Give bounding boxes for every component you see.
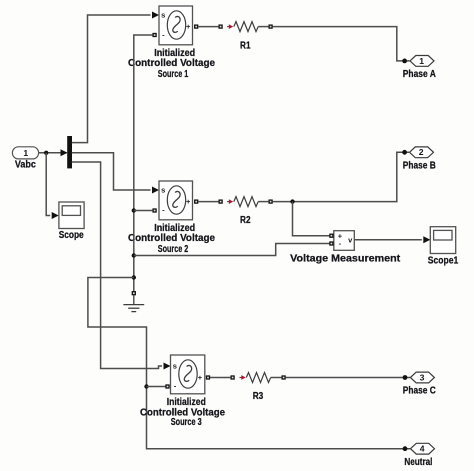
node at Phase C (403, 375, 408, 380)
svg-text:+: + (198, 373, 203, 382)
svg-text:Source 3: Source 3 (171, 417, 202, 428)
svg-text:R1: R1 (240, 40, 251, 51)
resistor R1 (219, 22, 272, 52)
wire minus bus: VS1 - down to ground (134, 35, 153, 291)
wire Vabc to demux (39, 152, 67, 154)
port square VS1 + (195, 25, 198, 28)
scope block Scope1 (428, 227, 459, 267)
svg-text:Scope1: Scope1 (428, 255, 459, 266)
svg-text:2: 2 (419, 147, 424, 157)
svg-text:Phase C: Phase C (403, 385, 436, 396)
wire bus to VS2 - (134, 210, 153, 212)
arrowhead into demux (61, 149, 68, 156)
node VM - tap (132, 253, 136, 257)
wire bus to voltage measurement - (134, 244, 330, 256)
port square VS1 - (153, 34, 156, 37)
wire R2 to Phase B (273, 152, 409, 201)
node ground junction (132, 275, 136, 279)
svg-text:Phase B: Phase B (403, 160, 436, 171)
svg-text:Controlled Voltage: Controlled Voltage (128, 233, 215, 244)
port square VS2 + (195, 200, 198, 203)
wire branch to Scope (46, 153, 50, 216)
node at Neutral (403, 446, 408, 451)
svg-text:s: s (161, 10, 165, 19)
node junction R2 output (290, 199, 294, 203)
wire neutral branch (88, 278, 410, 449)
svg-text:Neutral: Neutral (404, 457, 432, 468)
arrowhead into Scope (52, 212, 59, 219)
svg-text:s: s (161, 185, 165, 194)
svg-text:Vabc: Vabc (15, 159, 36, 170)
wire VM to Scope1 (354, 239, 422, 241)
outport hexagon Phase B (403, 147, 436, 171)
wire junction to voltage measurement + (293, 202, 330, 236)
voltage source VS3 (140, 355, 225, 428)
voltage measurement block VM (290, 231, 401, 265)
svg-text:Scope: Scope (59, 230, 84, 241)
inport Vabc (12, 147, 38, 171)
svg-text:Source 2: Source 2 (158, 244, 189, 255)
port square VM + (330, 234, 333, 237)
arrowhead into VS1 s (152, 12, 159, 19)
svg-text:R3: R3 (253, 391, 264, 402)
port square VS3 + (207, 376, 210, 379)
node at Phase B (402, 150, 407, 155)
arrowhead into VS2 s (152, 187, 159, 194)
wire demux out2 to VS2 s (72, 153, 151, 190)
outport hexagon Neutral (404, 443, 434, 468)
wire VS3 + to R3 (210, 377, 230, 379)
node at Phase A (402, 59, 407, 64)
svg-text:Voltage Measurement: Voltage Measurement (290, 253, 401, 264)
svg-text:3: 3 (420, 373, 425, 383)
svg-text:1: 1 (23, 148, 28, 158)
svg-text:Controlled Voltage: Controlled Voltage (128, 58, 215, 69)
demux (67, 136, 72, 168)
svg-text:4: 4 (420, 444, 425, 454)
svg-text:+: + (186, 22, 191, 31)
wire bus to VS3 - (147, 386, 166, 388)
wire demux out1 to VS1 s (72, 15, 151, 143)
wire VS1 + to R1 (198, 26, 218, 28)
outport hexagon Phase A (403, 56, 436, 80)
outport hexagon Phase C (403, 372, 436, 396)
node VS2 - tap (132, 208, 136, 212)
arrowhead into VS3 s (164, 363, 171, 370)
voltage source VS1 (128, 6, 215, 80)
arrowhead into Scope1 (423, 236, 430, 243)
node VS3 - tap (144, 384, 148, 388)
svg-text:1: 1 (419, 56, 424, 66)
svg-text:s: s (173, 361, 177, 370)
wire demux out3 to VS3 s (72, 162, 162, 369)
svg-text:R2: R2 (240, 215, 251, 226)
wire VS2 + to R2 (198, 201, 218, 203)
voltage source VS2 (128, 181, 215, 255)
port square VS3 - (166, 385, 169, 388)
resistor R2 (219, 197, 272, 226)
port square VM - (330, 242, 333, 245)
svg-text:Source 1: Source 1 (158, 69, 189, 80)
port square VS2 - (153, 209, 156, 212)
node junction at Vabc branch (44, 151, 48, 155)
wire R1 to Phase A (273, 27, 410, 61)
resistor R3 (231, 373, 285, 402)
svg-text:+: + (186, 197, 191, 206)
ground block (123, 292, 144, 312)
wire R3 to Phase C (286, 377, 410, 379)
scope block Scope (59, 202, 84, 241)
svg-text:Phase A: Phase A (403, 69, 436, 80)
